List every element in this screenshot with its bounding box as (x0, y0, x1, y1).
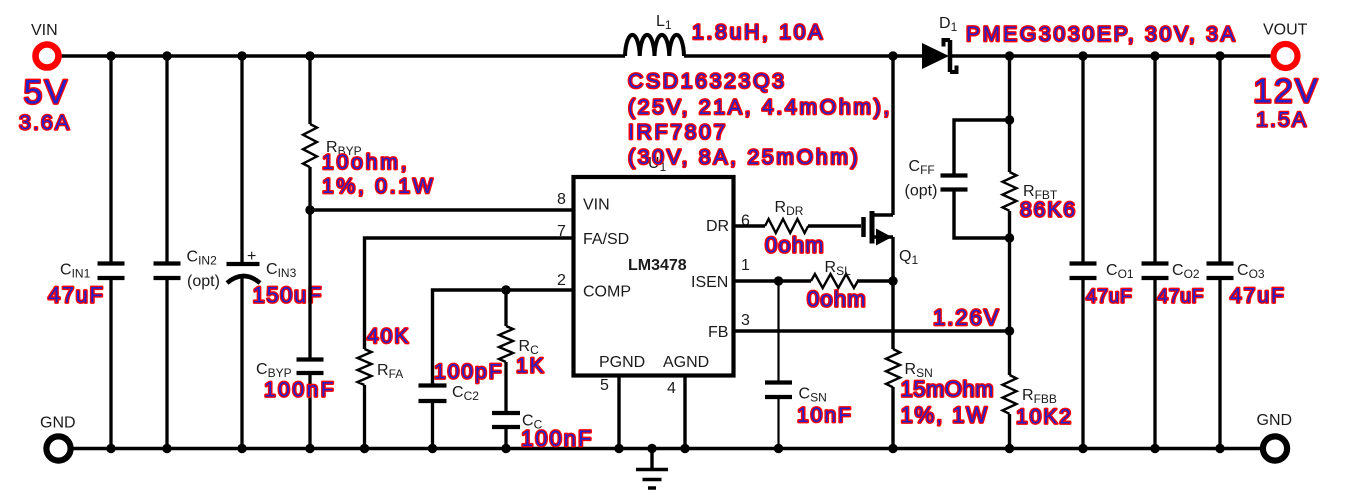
wire CIN3 branch (240, 56, 243, 448)
capacitor CIN3 polarized (227, 262, 260, 266)
junction RSN bottom (888, 444, 897, 453)
diode D1 (922, 40, 957, 72)
svg-text:CIN3: CIN3 (266, 261, 297, 280)
svg-text:47uF: 47uF (48, 283, 105, 308)
capacitor CO3 (1207, 264, 1234, 279)
svg-text:1: 1 (741, 257, 750, 274)
svg-text:(opt): (opt) (187, 273, 220, 290)
svg-text:47uF: 47uF (1158, 287, 1205, 308)
svg-text:(25V, 21A, 4.4mOhm),: (25V, 21A, 4.4mOhm), (628, 96, 892, 119)
wire RFBT branch top (1008, 56, 1011, 172)
svg-text:86K6: 86K6 (1020, 199, 1077, 222)
svg-text:DR: DR (706, 218, 729, 235)
wire ISEN pin1 (733, 279, 811, 282)
capacitor CIN1 (98, 264, 125, 279)
svg-text:CO2: CO2 (1172, 262, 1200, 281)
wire CO3 branch (1218, 56, 1221, 448)
junction CSN bottom (774, 444, 783, 453)
inductor L1 (625, 35, 684, 56)
svg-text:CBYP: CBYP (256, 361, 292, 380)
junction CC2 bottom (428, 444, 437, 453)
junction CO3 bottom (1215, 444, 1224, 453)
terminal VOUT (1274, 44, 1298, 68)
junction CFF top (1005, 115, 1014, 124)
junction ISEN node (774, 276, 783, 285)
wire FB pin3 (733, 329, 1010, 332)
junction FB node (1005, 326, 1014, 335)
svg-text:(30V, 8A, 25mOhm): (30V, 8A, 25mOhm) (628, 146, 860, 169)
svg-text:3: 3 (741, 312, 750, 329)
svg-text:COMP: COMP (583, 284, 631, 301)
wire RC to CC (504, 362, 507, 413)
wire CIN1 branch (109, 56, 112, 448)
wire FA/SD pin7 (365, 238, 576, 349)
svg-text:2: 2 (557, 272, 566, 289)
resistor RC (499, 326, 513, 362)
svg-text:LM3478: LM3478 (628, 257, 687, 274)
junction CIN1 top (106, 51, 115, 60)
junction CBYP bottom (305, 444, 314, 453)
svg-text:0ohm: 0ohm (765, 233, 825, 258)
junction ground stem (647, 444, 656, 453)
junction RFBB bottom (1005, 444, 1014, 453)
junction CO2 top (1150, 51, 1159, 60)
wire PGND pin5 (617, 375, 620, 448)
svg-text:47uF: 47uF (1086, 287, 1133, 308)
svg-text:D1: D1 (939, 15, 958, 34)
svg-text:FA/SD: FA/SD (583, 231, 629, 248)
svg-text:10ohm,: 10ohm, (322, 151, 409, 174)
wire COMP pin2 (433, 290, 576, 386)
resistor RFBB (1003, 375, 1017, 414)
svg-text:CSD16323Q3: CSD16323Q3 (628, 70, 787, 93)
capacitor CO1 (1070, 264, 1097, 279)
svg-text:150uF: 150uF (253, 283, 323, 308)
svg-text:CO3: CO3 (1237, 262, 1265, 281)
svg-text:GND: GND (1257, 412, 1293, 429)
wire CC bottom (504, 427, 507, 448)
wire CSN branch (777, 281, 779, 383)
op-amp U1 IC LM3478 box (574, 177, 734, 376)
resistor RFBT (1003, 172, 1017, 211)
junction CO3 top (1215, 51, 1224, 60)
capacitor CC (492, 413, 520, 427)
svg-text:1K: 1K (516, 355, 546, 378)
wire AGND pin4 (683, 375, 686, 448)
wire Q1 source down (891, 237, 894, 281)
capacitor CBYP (297, 360, 324, 374)
transistor Q1 (864, 211, 894, 246)
svg-text:CFF: CFF (909, 158, 935, 177)
svg-text:100pF: 100pF (434, 361, 504, 384)
svg-text:CC2: CC2 (452, 384, 479, 403)
svg-text:IRF7807: IRF7807 (628, 121, 728, 144)
junction CIN2 top (162, 51, 171, 60)
wire CO1 branch (1081, 56, 1084, 448)
wire RFBT bottom to FB node (1008, 211, 1011, 375)
svg-text:5V: 5V (24, 74, 70, 112)
svg-text:+: + (247, 248, 256, 265)
svg-text:1.8uH, 10A: 1.8uH, 10A (692, 21, 825, 44)
svg-text:ISEN: ISEN (691, 274, 728, 291)
svg-text:CSN: CSN (799, 386, 827, 405)
junction RC top on COMP wire (501, 285, 510, 294)
wire RSN bottom (891, 387, 894, 448)
svg-text:1%, 0.1W: 1%, 0.1W (322, 175, 435, 198)
junction source node (888, 276, 897, 285)
svg-text:100nF: 100nF (521, 426, 593, 451)
ground symbol (636, 448, 668, 488)
svg-text:0ohm: 0ohm (807, 287, 867, 312)
svg-text:10nF: 10nF (797, 404, 853, 427)
capacitor CSN (765, 383, 792, 398)
svg-text:40K: 40K (367, 325, 410, 348)
svg-text:RSL: RSL (825, 259, 852, 278)
svg-text:PGND: PGND (599, 354, 645, 371)
junction CO1 bottom (1078, 444, 1087, 453)
svg-text:5: 5 (600, 377, 609, 394)
junction CO1 top (1078, 51, 1087, 60)
svg-text:(opt): (opt) (905, 183, 938, 200)
wire CIN2 branch (165, 56, 168, 448)
wire RSL to source node (857, 279, 893, 282)
svg-text:GND: GND (40, 415, 76, 432)
svg-text:3.6A: 3.6A (19, 111, 71, 135)
svg-text:RDR: RDR (775, 199, 804, 218)
wire RBYP/CBYP branch (308, 56, 311, 448)
junction PGND bottom (614, 444, 623, 453)
capacitor CFF (941, 176, 968, 190)
svg-text:VIN: VIN (31, 22, 58, 39)
svg-text:RFA: RFA (377, 362, 403, 381)
junction CFF bottom (1005, 233, 1014, 242)
wire RDR to gate (808, 224, 861, 227)
svg-text:100nF: 100nF (264, 379, 336, 402)
wire CC2 bottom (431, 401, 434, 448)
wire Q1 source to RSN (891, 281, 894, 349)
wire VIN pin8 (310, 208, 575, 211)
wire CSN bottom (777, 396, 779, 448)
svg-text:1%, 1W: 1%, 1W (901, 403, 989, 428)
svg-text:PMEG3030EP, 30V, 3A: PMEG3030EP, 30V, 3A (966, 23, 1238, 46)
svg-text:RFBB: RFBB (1022, 387, 1057, 406)
svg-text:1.5A: 1.5A (1256, 108, 1308, 132)
resistor RBYP (303, 124, 317, 167)
svg-text:VIN: VIN (583, 197, 610, 214)
wire CFF bottom (954, 190, 1010, 238)
junction CIN2 bottom (162, 444, 171, 453)
wire RC branch (504, 290, 507, 326)
resistor RFA (358, 349, 372, 385)
wire Q1 drain to top rail (891, 56, 894, 215)
junction CC bottom (501, 444, 510, 453)
junction RBYP bottom node (305, 205, 314, 214)
capacitor CIN2 (154, 264, 181, 279)
svg-text:CO1: CO1 (1106, 262, 1134, 281)
junction CIN3 top (237, 51, 246, 60)
junction RFBT top rail (1005, 51, 1014, 60)
wire CO2 branch (1153, 56, 1156, 448)
capacitor CO2 (1142, 264, 1169, 279)
terminal VIN (36, 45, 59, 68)
resistor RSN (886, 349, 900, 387)
svg-text:VOUT: VOUT (1263, 22, 1308, 39)
junction AGND bottom (680, 444, 689, 453)
terminal GND left (46, 436, 70, 460)
wire RFBB bottom (1008, 414, 1011, 448)
svg-text:7: 7 (557, 223, 566, 240)
svg-text:15mOhm: 15mOhm (901, 377, 994, 402)
svg-text:12V: 12V (1253, 73, 1320, 111)
wire bottom rail (73, 447, 1260, 450)
junction RBYP top (305, 51, 314, 60)
svg-text:10K2: 10K2 (1016, 406, 1073, 429)
junction CO2 bottom (1150, 444, 1159, 453)
capacitor CC2 (419, 386, 447, 402)
svg-text:Q1: Q1 (899, 248, 918, 267)
svg-text:1.26V: 1.26V (933, 305, 1001, 330)
wire DR pin6 to RDR (733, 224, 765, 227)
resistor RSL (811, 274, 858, 288)
junction CIN3 bottom (237, 444, 246, 453)
svg-text:CIN2: CIN2 (187, 249, 218, 268)
svg-text:L1: L1 (656, 13, 672, 32)
wire RFA bottom (363, 385, 366, 448)
terminal GND right (1263, 436, 1287, 460)
junction RFA bottom (360, 444, 369, 453)
svg-text:47uF: 47uF (1230, 285, 1286, 308)
svg-text:FB: FB (708, 324, 728, 341)
junction CIN1 bottom (106, 444, 115, 453)
wire top rail (61, 54, 1271, 57)
resistor RDR (765, 219, 808, 233)
svg-text:4: 4 (667, 380, 676, 397)
junction drain top rail (888, 51, 897, 60)
svg-text:8: 8 (557, 191, 566, 208)
wire CFF top (954, 120, 1010, 175)
svg-text:CIN1: CIN1 (60, 261, 91, 280)
svg-text:AGND: AGND (663, 354, 709, 371)
